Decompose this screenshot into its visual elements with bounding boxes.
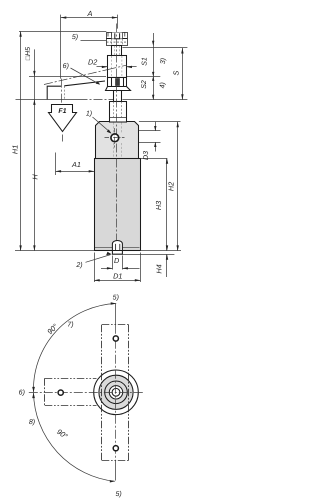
svg-text:4): 4) <box>159 82 167 88</box>
center hole <box>112 388 120 396</box>
hub circle <box>109 386 122 399</box>
upper 90 degree arc <box>33 304 116 393</box>
horizontal centerline <box>29 392 144 394</box>
lower body cylinder (gray) <box>95 159 141 251</box>
dimension S1/S2 stack <box>153 33 155 100</box>
svg-text:7): 7) <box>67 320 73 328</box>
svg-text:6): 6) <box>19 389 25 397</box>
bolt hole left <box>58 390 63 395</box>
upper stem <box>112 46 122 56</box>
dimension A1 <box>55 153 57 176</box>
lever swung axis (slanted) <box>44 67 117 84</box>
svg-text:□H5: □H5 <box>25 47 32 60</box>
svg-text:S2: S2 <box>141 80 148 89</box>
bottom pin <box>112 241 122 255</box>
lower stem <box>114 91 122 102</box>
body step line <box>94 158 140 160</box>
D2 block <box>108 56 127 78</box>
pivot boss band <box>108 78 127 87</box>
upper body section (light gray, chamfered top corners) <box>96 122 139 159</box>
washer flange <box>106 87 131 91</box>
svg-text:H4: H4 <box>155 264 164 273</box>
dimension H4 <box>166 254 168 277</box>
svg-text:90°: 90° <box>45 322 59 336</box>
dimension S <box>182 48 184 100</box>
extension line at junction level <box>29 76 106 78</box>
dimension H1 <box>20 31 22 251</box>
svg-text:8): 8) <box>29 418 35 426</box>
middle circle <box>105 381 128 404</box>
cross hole <box>111 134 119 142</box>
svg-text:S1: S1 <box>141 57 148 66</box>
svg-text:H: H <box>30 174 39 180</box>
svg-text:A: A <box>87 9 93 18</box>
extension right at lever axis level <box>122 99 187 101</box>
bottom extension line left <box>15 250 94 252</box>
dimension H3 <box>166 158 168 251</box>
force axis / A left extension <box>60 15 62 79</box>
dimension D3 (cross hole diameter) <box>139 130 161 132</box>
dimension H2 <box>139 121 181 123</box>
svg-text:5): 5) <box>115 490 121 498</box>
svg-text:1): 1) <box>86 109 92 117</box>
knob hidden lines <box>112 39 123 46</box>
dimension A <box>61 17 118 19</box>
dimension H and H5 shared line <box>34 49 36 251</box>
flange gray ring <box>99 375 133 409</box>
part centerline <box>116 24 118 249</box>
knob base steps <box>107 41 128 43</box>
bottom extension right <box>140 250 181 252</box>
flange outer circle <box>94 370 139 415</box>
svg-text:H3: H3 <box>154 201 163 210</box>
svg-text:90°: 90° <box>55 427 69 441</box>
knob raised center <box>112 33 123 39</box>
body bottom chamfer line <box>95 247 140 249</box>
svg-text:F1: F1 <box>58 108 66 115</box>
dimension D2 <box>97 66 108 68</box>
A right extension <box>117 15 119 29</box>
dimension D1 <box>94 253 96 283</box>
phantom plate rectangle vertical <box>102 325 129 461</box>
svg-text:5): 5) <box>72 33 78 41</box>
svg-text:D3: D3 <box>143 151 150 160</box>
svg-text:H2: H2 <box>166 182 175 191</box>
svg-text:6): 6) <box>63 62 69 70</box>
svg-text:H1: H1 <box>10 145 19 154</box>
svg-text:D1: D1 <box>113 271 122 280</box>
knob divider <box>106 38 127 40</box>
hidden spindle lines in upper body <box>114 123 122 158</box>
collar below stem <box>110 102 127 123</box>
phantom plate rectangle horizontal <box>45 378 97 405</box>
svg-text:2): 2) <box>75 261 82 269</box>
knurled knob head <box>107 33 128 46</box>
extension line at knob top level <box>19 31 106 33</box>
svg-text:D2: D2 <box>88 57 97 66</box>
extension right at stem top level <box>122 47 187 49</box>
bolt hole bottom <box>113 446 118 451</box>
lever tip block <box>47 86 61 99</box>
bolt hole top <box>113 336 118 341</box>
vertical centerline <box>115 304 117 325</box>
lever swung axis crossing block <box>108 65 127 69</box>
pin bottom extension <box>122 254 174 256</box>
lever tapered top edge <box>64 81 105 86</box>
knob slot <box>115 33 120 39</box>
lower 90 degree arc <box>34 393 115 482</box>
F1 force arrow symbol <box>49 105 77 132</box>
svg-text:5): 5) <box>113 294 119 302</box>
svg-text:D: D <box>114 256 120 265</box>
lever axis line <box>16 99 79 101</box>
svg-text:3): 3) <box>159 58 167 64</box>
knurl ticks <box>108 32 125 37</box>
body bottom edge <box>94 250 140 252</box>
dimension D <box>112 256 114 270</box>
boss slot (dark) <box>116 79 120 86</box>
svg-text:A1: A1 <box>71 160 81 169</box>
svg-text:S: S <box>171 70 180 75</box>
